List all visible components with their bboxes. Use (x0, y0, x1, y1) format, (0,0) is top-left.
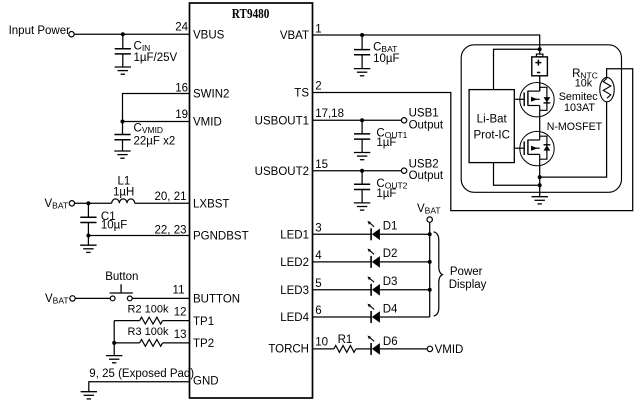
transistor Q1 protection MOSFET (520, 83, 554, 117)
wire TS pin 2 to RNTC (313, 69, 633, 211)
svg-text:10µF: 10µF (101, 220, 127, 232)
wire button to BUTTON pin 11 (132, 297, 189, 299)
brace for Power Display (434, 232, 443, 316)
svg-text:USB2: USB2 (409, 158, 439, 170)
LED D2 (370, 256, 372, 268)
wire R2 to TP1 pin 12 (163, 320, 190, 322)
wire LED3 pin to diode D3 (313, 289, 372, 291)
svg-text:USBOUT2: USBOUT2 (255, 166, 309, 178)
wire battery top to Prot-IC top (494, 49, 540, 89)
wire R3 to TP2 pin 13 (163, 342, 190, 344)
svg-text:22, 23: 22, 23 (155, 224, 187, 236)
wire D3 to VBAT rail (380, 289, 430, 291)
IC U1 RT9480 (190, 3, 313, 398)
LED D6 (370, 343, 372, 355)
wire Q2 source down (539, 166, 541, 189)
node CVMID junction (121, 120, 125, 124)
svg-text:Button: Button (105, 271, 138, 283)
battery pack enclosure (461, 45, 621, 193)
thermistor RNTC (600, 77, 614, 101)
svg-text:VBUS: VBUS (193, 29, 225, 41)
svg-text:R2 100k: R2 100k (128, 303, 169, 315)
svg-text:N-MOSFET: N-MOSFET (547, 121, 603, 133)
svg-text:Output: Output (409, 170, 444, 182)
svg-text:9, 25 (Exposed Pad): 9, 25 (Exposed Pad) (89, 368, 194, 380)
svg-text:VBAT: VBAT (45, 293, 69, 306)
svg-text:1: 1 (315, 23, 321, 35)
svg-text:4: 4 (315, 250, 322, 262)
wire battery to MOSFET Q1 (539, 76, 541, 91)
svg-text:D6: D6 (383, 336, 398, 348)
Li-Bat Prot-IC U2 (469, 90, 514, 163)
LED D4 (370, 311, 372, 323)
wire R1 to D6 (356, 348, 371, 350)
svg-text:TORCH: TORCH (268, 343, 309, 355)
svg-text:Li-Bat: Li-Bat (477, 114, 508, 126)
svg-text:2: 2 (315, 81, 321, 93)
svg-text:1µH: 1µH (113, 187, 134, 199)
svg-text:5: 5 (315, 278, 321, 290)
wire TORCH pin 10 (313, 348, 334, 350)
svg-text:12: 12 (174, 306, 187, 318)
wire D4 to VBAT rail (380, 316, 430, 318)
node COUT1 junction (360, 118, 364, 122)
node NTC bottom junction (538, 175, 542, 179)
svg-text:BUTTON: BUTTON (193, 294, 240, 306)
svg-text:10µF: 10µF (373, 53, 399, 65)
ground below GND pin (81, 392, 97, 399)
svg-text:LXBST: LXBST (193, 199, 229, 211)
wire Q1 to Q2 (539, 117, 541, 132)
svg-text:TS: TS (294, 88, 309, 100)
svg-text:LED2: LED2 (280, 257, 309, 269)
wire to ground (113, 343, 115, 356)
svg-text:15: 15 (315, 159, 328, 171)
wire to ground (87, 236, 89, 246)
node D3 rail junction (428, 288, 432, 292)
ground below COUT2 (354, 203, 370, 210)
capacitor C1 10uF (87, 203, 89, 217)
svg-text:R1: R1 (338, 334, 353, 346)
LED D3 (370, 284, 372, 296)
svg-text:20, 21: 20, 21 (155, 191, 187, 203)
svg-text:RT9480: RT9480 (232, 7, 270, 22)
svg-text:17,18: 17,18 (315, 108, 344, 120)
wire Input Power to VBUS pin 24 (74, 33, 189, 35)
node CIN junction (121, 32, 125, 36)
node D2 rail junction (428, 260, 432, 264)
svg-text:Power: Power (450, 266, 483, 278)
wire LED4 pin to diode D4 (313, 316, 372, 318)
svg-text:10: 10 (315, 337, 328, 349)
ground below C1 (80, 245, 96, 252)
wire D6 to VMID terminal (380, 348, 427, 350)
pack ground (532, 197, 548, 204)
svg-text:VMID: VMID (435, 344, 464, 356)
svg-text:CVMID: CVMID (134, 123, 164, 136)
svg-text:VMID: VMID (193, 117, 222, 129)
node CBAT junction (360, 33, 364, 37)
svg-text:Prot-IC: Prot-IC (473, 129, 509, 141)
wire VBAT to button (75, 297, 110, 299)
wire Prot-IC bottom (494, 163, 540, 186)
svg-text:VBAT: VBAT (280, 30, 309, 42)
svg-text:16: 16 (175, 82, 188, 94)
svg-text:D3: D3 (383, 276, 398, 288)
svg-text:GND: GND (193, 375, 219, 387)
transistor Q2 protection MOSFET (520, 131, 554, 165)
svg-text:PGNDBST: PGNDBST (193, 231, 249, 243)
svg-text:Input Power: Input Power (9, 25, 71, 37)
pack ground stem (539, 185, 541, 196)
svg-text:SWIN2: SWIN2 (193, 89, 229, 101)
svg-text:D1: D1 (383, 221, 398, 233)
node C1 junction (86, 201, 90, 205)
USB1 Output terminal (401, 118, 406, 123)
wire VBAT rail down to LED4 (429, 222, 431, 317)
node PGNDBST junction (86, 234, 90, 238)
wire VBAT pin 1 to battery pack (313, 35, 540, 54)
node TP ground junction (112, 341, 116, 345)
svg-text:1µF: 1µF (376, 137, 396, 149)
ground below CVMID (114, 151, 130, 158)
svg-text:USBOUT1: USBOUT1 (255, 116, 309, 128)
node battery top junction (538, 47, 542, 51)
svg-text:TP2: TP2 (193, 338, 214, 350)
svg-text:Output: Output (409, 120, 444, 132)
capacitor CVMID (122, 122, 124, 135)
wire D2 to VBAT rail (380, 261, 430, 263)
wire LED1 pin to diode D1 (313, 233, 372, 235)
wire VBAT to L1 (75, 202, 112, 204)
node Prot-IC bottom junction (538, 183, 542, 187)
svg-text:10k: 10k (575, 77, 593, 89)
VMID terminal (427, 346, 432, 351)
node COUT2 junction (360, 169, 364, 173)
wire USBOUT2 pin 15 (313, 170, 402, 172)
wire GND pin 9,25 (89, 382, 190, 392)
svg-text:6: 6 (315, 305, 321, 317)
wire LED2 pin to diode D2 (313, 261, 372, 263)
ground below CIN (115, 67, 131, 74)
ground below R3 (106, 356, 122, 363)
wire TP1 down to TP2 (113, 321, 115, 343)
svg-text:11: 11 (173, 285, 185, 297)
node D1 rail junction (428, 232, 432, 236)
USB2 Output terminal (401, 168, 406, 173)
ground below COUT1 (354, 153, 370, 160)
svg-text:LED4: LED4 (280, 312, 309, 324)
svg-text:1µF/25V: 1µF/25V (134, 52, 178, 64)
svg-text:22µF x2: 22µF x2 (134, 136, 176, 148)
svg-text:Display: Display (449, 279, 487, 291)
wire USBOUT1 pin 17,18 (313, 119, 402, 121)
wire NTC bottom to pack node (540, 102, 607, 178)
svg-text:LED1: LED1 (280, 230, 309, 242)
capacitor CIN (122, 34, 124, 49)
svg-text:1µF: 1µF (376, 188, 396, 200)
wire L1 to LXBST pin 20,21 (135, 202, 190, 204)
svg-text:TP1: TP1 (193, 316, 214, 328)
svg-text:103AT: 103AT (564, 102, 595, 114)
svg-text:VBAT: VBAT (45, 198, 69, 211)
capacitor CBAT 10uF (361, 35, 363, 50)
svg-text:13: 13 (174, 329, 187, 341)
svg-text:R3 100k: R3 100k (128, 326, 169, 338)
svg-text:USB1: USB1 (409, 107, 439, 119)
wire VMID pin 19 (123, 121, 190, 123)
wire PGNDBST pin 22,23 (88, 235, 189, 237)
svg-text:LED3: LED3 (280, 285, 309, 297)
capacitor COUT2 1uF (361, 171, 363, 185)
battery B1 (536, 54, 543, 57)
wire D1 to VBAT rail (380, 233, 430, 235)
wire SWIN2 pin 16 (123, 94, 190, 122)
svg-text:VBAT: VBAT (417, 203, 441, 216)
svg-text:D4: D4 (383, 303, 398, 315)
LED D1 (370, 228, 372, 240)
pushbutton switch (110, 296, 115, 301)
svg-text:24: 24 (175, 22, 188, 34)
capacitor COUT1 1uF (361, 120, 363, 134)
svg-text:D2: D2 (383, 248, 398, 260)
svg-text:3: 3 (315, 222, 321, 234)
svg-text:19: 19 (175, 109, 188, 121)
Input Power terminal (69, 32, 74, 37)
ground below CBAT (354, 69, 370, 76)
